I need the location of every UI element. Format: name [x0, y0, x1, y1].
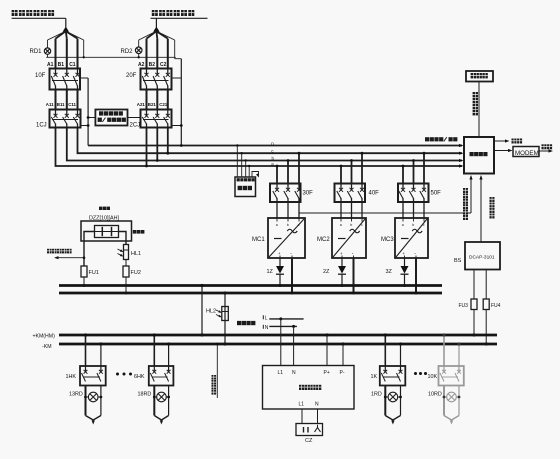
- svg-text:C1: C1: [69, 62, 76, 68]
- wire: battery positive lead: [84, 232, 95, 267]
- wire: monitor to MODEM: [494, 149, 513, 152]
- wire: MODEM remote output arrow: [539, 149, 553, 152]
- svg-text:MODEM: MODEM: [515, 150, 539, 157]
- svg-text:N: N: [265, 325, 269, 331]
- svg-text:B21: B21: [148, 102, 157, 107]
- breaker 10F: [50, 69, 81, 90]
- wire: RD1 to sense line: [47, 54, 49, 57]
- svg-text:30F: 30F: [303, 191, 314, 197]
- svg-text:L1: L1: [299, 401, 305, 407]
- dots: feeders 2K-9K ellipsis: [414, 372, 427, 375]
- bus: charge negative busbar: [59, 292, 442, 295]
- switch 1HK: [80, 366, 106, 386]
- wire: monitor serial output arrow: [494, 139, 510, 142]
- svg-text:10K: 10K: [428, 374, 438, 380]
- svg-text:10RD: 10RD: [428, 391, 442, 397]
- svg-text:MC3: MC3: [381, 237, 394, 243]
- labels A21 B21 C21: [137, 102, 168, 107]
- wire: MC3 AC input wires: [403, 202, 424, 218]
- svg-text:2CJ: 2CJ: [130, 123, 141, 129]
- svg-text:c: c: [298, 223, 300, 227]
- bus c (AC bus line 2) from 1CJ pole C: [78, 128, 463, 154]
- breaker 40F: [335, 184, 366, 203]
- wire: inverter L1 input drop: [280, 319, 282, 366]
- wire: MC3 negative output to bus: [415, 258, 418, 295]
- wire: inverter P- from -KM: [341, 342, 344, 365]
- svg-text:10F: 10F: [35, 73, 46, 79]
- bus: charge positive busbar: [59, 284, 442, 287]
- contactor 1CJ: [50, 110, 81, 128]
- wire: 10F to 1CJ phase wires: [56, 90, 78, 110]
- wire: 2CJ right stub: [172, 124, 183, 127]
- svg-text:1Z: 1Z: [267, 269, 274, 275]
- label: module comm status (vertical): [463, 188, 468, 220]
- label: to insulation monitor: [47, 249, 72, 254]
- wire: MC2 AC input wires: [341, 202, 362, 218]
- wire: interlock left stub: [87, 116, 96, 119]
- svg-text:A21: A21: [137, 102, 146, 107]
- svg-text:1HK: 1HK: [66, 374, 77, 380]
- label: battery inspection (vertical): [490, 197, 495, 219]
- svg-text:C21: C21: [159, 102, 168, 107]
- wire: stub to arrester RD1: [48, 31, 66, 48]
- indicator HL2 string: [216, 291, 228, 345]
- svg-text:+: +: [278, 251, 281, 256]
- wire: feeder 6HK supply legs: [153, 333, 171, 366]
- svg-text:1CJ: 1CJ: [36, 123, 47, 129]
- wire: 1CJ right stub: [81, 124, 90, 127]
- wire: DCAP to monitoring unit: [479, 175, 482, 242]
- label: vertical branch label: [212, 375, 217, 395]
- svg-text:b: b: [350, 223, 352, 227]
- wire: inverter AC line L: [263, 315, 303, 321]
- wire: source2 feed line: [151, 18, 208, 27]
- svg-text:FU2: FU2: [131, 270, 141, 276]
- svg-text:FU4: FU4: [491, 303, 501, 309]
- svg-text:40F: 40F: [369, 191, 380, 197]
- monitoring unit box (监控单元): [464, 137, 494, 174]
- wire: taps from buses to breaker 50F: [402, 152, 426, 184]
- wire: feeder 6HK output arrow: [154, 416, 168, 425]
- socket CZ: [296, 424, 323, 436]
- label: to AC source 1 (至交流电源一): [12, 10, 55, 16]
- label: remote (远程): [542, 144, 553, 149]
- rectifier module MC3: [395, 218, 428, 258]
- labels A1 B1 C1: [47, 62, 76, 68]
- wire: RD2 to sense line: [138, 54, 140, 58]
- svg-text:B2: B2: [149, 62, 156, 68]
- label: parallel port (并机): [512, 139, 523, 144]
- lamp 18RD: [153, 386, 170, 416]
- svg-text:L: L: [265, 315, 268, 321]
- fuse FU2: [123, 260, 129, 295]
- svg-text:6HK: 6HK: [134, 374, 145, 380]
- svg-text:FU3: FU3: [459, 303, 469, 309]
- svg-text:1K: 1K: [371, 374, 378, 380]
- label: storage battery (蓄电池): [133, 230, 145, 234]
- label: to AC source 2 (至交流电源二): [152, 10, 195, 16]
- bus: +KM(HM) control busbar: [59, 334, 497, 337]
- svg-text:A2: A2: [138, 62, 145, 68]
- breaker 50F: [398, 184, 429, 203]
- wire: feeder 1K supply legs: [384, 333, 402, 366]
- svg-text:1RD: 1RD: [371, 391, 382, 397]
- svg-text:C11: C11: [68, 102, 76, 107]
- lamp 10RD: [443, 386, 461, 416]
- fuse FU4: [483, 270, 489, 346]
- rectifier module MC2: [332, 218, 366, 258]
- svg-text:a: a: [402, 223, 404, 227]
- label: alarm output (vertical): [473, 92, 478, 115]
- wire: source1 neutral sense drop: [66, 31, 84, 57]
- svg-text:HL1: HL1: [131, 251, 141, 257]
- svg-text:c: c: [423, 223, 425, 227]
- wire: meter hook arrow: [252, 172, 259, 178]
- breaker 20F: [141, 69, 172, 90]
- wire: -KM branch with vertical label: [216, 343, 219, 398]
- wire: monitor to alarm contact box: [478, 82, 480, 138]
- interlock transfer box (投切联锁 手动/自动转换): [95, 110, 127, 126]
- wire: feeder 10K output arrow: [444, 416, 459, 425]
- dots: feeders 2HK-5HK ellipsis: [116, 373, 132, 376]
- svg-text:50F: 50F: [431, 191, 442, 197]
- svg-text:FU1: FU1: [89, 270, 99, 276]
- inverter box (逆变电源): [263, 366, 355, 410]
- wire: inverter output to socket: [302, 409, 318, 424]
- switch 1K: [380, 366, 406, 386]
- wire: feeder 1HK supply legs: [84, 333, 103, 366]
- svg-text:MC1: MC1: [252, 237, 265, 243]
- lamp 13RD: [84, 386, 102, 416]
- svg-text:b: b: [287, 223, 289, 227]
- wire: interlock to 2CJ: [128, 117, 141, 119]
- MODEM box: [513, 147, 539, 157]
- node: source1 fan-out junction: [63, 27, 69, 32]
- svg-text:RD2: RD2: [121, 49, 134, 55]
- wire: charge bus to +KM link: [200, 284, 203, 337]
- svg-text:+: +: [403, 251, 406, 256]
- svg-text:RD1: RD1: [30, 49, 43, 55]
- svg-text:13RD: 13RD: [69, 391, 83, 397]
- svg-text:A1: A1: [47, 62, 54, 68]
- contactor 2CJ: [141, 110, 172, 128]
- fuse FU3: [471, 270, 477, 337]
- svg-text:DCAP-3101: DCAP-3101: [469, 255, 495, 261]
- AC sampling meter box: [235, 144, 256, 196]
- switch 10K: [439, 366, 464, 386]
- diode 2Z on MC2 positive output: [338, 258, 346, 287]
- labels A11 B11 C11: [46, 102, 77, 107]
- svg-text:b: b: [412, 223, 414, 227]
- arrester RD2: [135, 47, 142, 54]
- svg-text:B1: B1: [58, 62, 65, 68]
- label: AC input/monitoring (交流输入/监测): [425, 137, 457, 141]
- label: battery panel (电池屏): [99, 207, 110, 210]
- bus a (AC bus line 4) from 1CJ pole A: [56, 128, 463, 167]
- svg-text:L1: L1: [278, 370, 284, 376]
- wire: stub to arrester RD2: [139, 31, 157, 47]
- wire: inverter N input drop: [293, 326, 295, 365]
- wire: 20F right side stub: [172, 77, 182, 79]
- wire: feeder 1HK output arrow: [86, 416, 101, 425]
- svg-text:18RD: 18RD: [138, 391, 152, 397]
- diode 1Z on MC1 positive output: [276, 258, 284, 287]
- wire: taps from buses to breaker 30F: [276, 152, 301, 184]
- svg-text:B11: B11: [57, 102, 65, 107]
- wire: MC1 negative output to bus: [291, 258, 294, 295]
- bus b (AC bus line 3) from 1CJ pole B: [67, 128, 462, 161]
- svg-text:P+: P+: [324, 370, 330, 376]
- wire: inverter AC line N: [263, 325, 297, 331]
- bus n (AC bus line 1): [88, 145, 462, 147]
- wire: module communication line to monitoring unit: [299, 175, 473, 218]
- svg-text:N: N: [292, 370, 296, 376]
- svg-text:c: c: [361, 223, 363, 227]
- diode 3Z on MC3 positive output: [401, 258, 409, 287]
- indicator HL1: [118, 245, 129, 260]
- wire: 20F to 2CJ phase wires: [147, 90, 168, 110]
- wire: inverter P+ from +KM: [325, 333, 328, 365]
- rectifier module MC1: [268, 218, 305, 258]
- svg-text:20F: 20F: [126, 73, 137, 79]
- svg-text:N: N: [315, 401, 319, 407]
- wire: MC1 AC input wires: [277, 202, 299, 218]
- wire: source1 feed line: [12, 18, 66, 27]
- svg-text:HL2: HL2: [206, 309, 216, 315]
- svg-text:A11: A11: [46, 102, 54, 107]
- lamp 1RD: [384, 386, 402, 416]
- battery box: [81, 221, 132, 241]
- svg-text:BS: BS: [454, 258, 462, 264]
- svg-text:CZ: CZ: [305, 438, 313, 444]
- wire: feeder 1K output arrow: [385, 416, 400, 425]
- node: source2 fan-out junction: [153, 27, 159, 32]
- wire: 10F right side to bus n: [80, 78, 88, 146]
- wire: arrester common sense line: [46, 56, 176, 58]
- wire: battery negative lead: [119, 232, 127, 245]
- svg-text:+: +: [340, 251, 343, 256]
- svg-text:a: a: [340, 223, 342, 227]
- svg-text:-KM: -KM: [42, 344, 52, 350]
- wire: taps from buses to breaker 40F: [340, 152, 364, 184]
- wire: source2 phase fan-out: [147, 31, 168, 68]
- svg-text:a: a: [276, 223, 278, 227]
- wire: 2CJ outputs to buses: [145, 128, 183, 168]
- switch 6HK: [149, 366, 174, 386]
- arrowheads: buses into monitoring unit: [459, 144, 464, 168]
- svg-text:+KM(HM): +KM(HM): [33, 333, 56, 339]
- arrester RD1: [44, 48, 50, 54]
- wire: source1 phase fan-out: [56, 31, 78, 68]
- svg-text:MC2: MC2: [317, 237, 330, 243]
- battery inspection unit DCAP-3101: [465, 242, 500, 270]
- bus: -KM busbar: [59, 343, 497, 346]
- wire: to insulation monitor (至绝缘监测): [54, 256, 85, 259]
- svg-text:C2: C2: [160, 62, 167, 68]
- svg-text:2Z: 2Z: [323, 269, 330, 275]
- svg-text:P-: P-: [340, 370, 345, 376]
- wire: MC2 negative output to bus: [352, 258, 355, 295]
- label: AC mains input: [237, 321, 255, 325]
- wire: feeder 10K supply legs: [442, 333, 460, 366]
- wire: source2 sense drop to bus n: [156, 31, 181, 145]
- alarm contact box: [466, 71, 493, 82]
- labels A2 B2 C2: [138, 62, 167, 68]
- bus phase letters n c b a: [271, 141, 274, 166]
- fuse FU1: [81, 266, 87, 287]
- svg-text:3Z: 3Z: [386, 269, 393, 275]
- breaker 30F: [270, 184, 301, 203]
